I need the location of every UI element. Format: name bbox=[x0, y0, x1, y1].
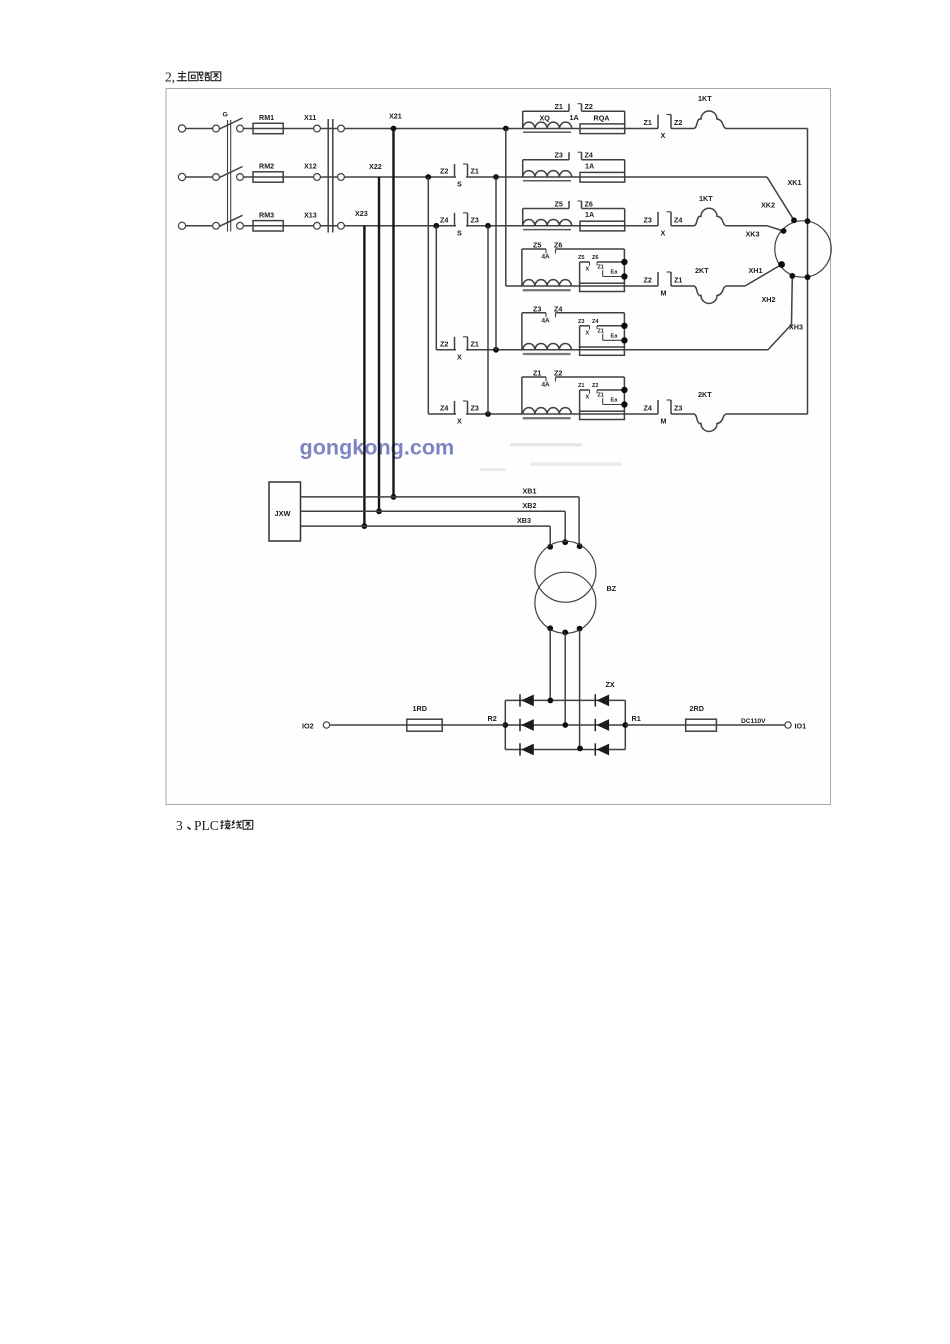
svg-text:G: G bbox=[223, 112, 228, 119]
svg-text:1KT: 1KT bbox=[699, 194, 713, 203]
svg-text:Z3: Z3 bbox=[644, 215, 652, 224]
svg-text:Z1: Z1 bbox=[598, 393, 605, 399]
svg-text:4A: 4A bbox=[542, 382, 551, 389]
svg-text:Z2: Z2 bbox=[674, 118, 682, 127]
svg-text:X12: X12 bbox=[304, 162, 317, 171]
svg-text:X: X bbox=[661, 228, 666, 237]
svg-text:RM3: RM3 bbox=[259, 210, 274, 219]
svg-text:S: S bbox=[457, 228, 462, 237]
svg-text:X21: X21 bbox=[389, 112, 402, 121]
svg-text:ZX: ZX bbox=[606, 680, 615, 689]
svg-text:Z3: Z3 bbox=[471, 215, 479, 224]
svg-text:XK3: XK3 bbox=[746, 230, 760, 239]
svg-text:XK2: XK2 bbox=[761, 201, 775, 210]
svg-text:3: 3 bbox=[176, 818, 183, 833]
svg-text:Z4: Z4 bbox=[674, 215, 682, 224]
svg-text:X: X bbox=[457, 352, 462, 361]
svg-text:IO2: IO2 bbox=[302, 722, 314, 731]
svg-text:Z6: Z6 bbox=[554, 241, 562, 250]
svg-text:X: X bbox=[586, 267, 590, 273]
svg-text:1KT: 1KT bbox=[698, 94, 712, 103]
svg-text:X11: X11 bbox=[304, 113, 316, 122]
svg-text:XK1: XK1 bbox=[788, 178, 802, 187]
svg-text:XB2: XB2 bbox=[523, 501, 537, 510]
svg-text:M: M bbox=[661, 417, 667, 426]
svg-text:XB1: XB1 bbox=[523, 487, 537, 496]
svg-text:Z1: Z1 bbox=[471, 339, 479, 348]
svg-text:XH2: XH2 bbox=[762, 295, 776, 304]
svg-text:XQ: XQ bbox=[540, 113, 551, 122]
svg-text:IO1: IO1 bbox=[795, 722, 807, 731]
svg-text:Z5: Z5 bbox=[533, 241, 541, 250]
svg-text:Z1: Z1 bbox=[674, 276, 682, 285]
svg-text:Z1: Z1 bbox=[598, 265, 605, 271]
svg-text:Z2: Z2 bbox=[644, 276, 652, 285]
svg-text:Z2: Z2 bbox=[592, 383, 599, 389]
svg-text:BZ: BZ bbox=[607, 584, 617, 593]
svg-text:Z3: Z3 bbox=[674, 404, 682, 413]
svg-text:X: X bbox=[586, 330, 590, 336]
svg-text:Z4: Z4 bbox=[440, 215, 448, 224]
svg-text:2,: 2, bbox=[165, 70, 175, 85]
svg-text:S: S bbox=[457, 180, 462, 189]
svg-text:gongkong.com: gongkong.com bbox=[300, 435, 455, 460]
svg-text:Z2: Z2 bbox=[440, 339, 448, 348]
svg-text:Z4: Z4 bbox=[440, 404, 448, 413]
svg-text:RQA: RQA bbox=[594, 113, 610, 122]
svg-text:Z1: Z1 bbox=[578, 383, 585, 389]
svg-text:4A: 4A bbox=[542, 317, 551, 324]
svg-text:XB3: XB3 bbox=[517, 516, 531, 525]
svg-text:Z6: Z6 bbox=[592, 255, 599, 261]
svg-text:Z1: Z1 bbox=[471, 167, 479, 176]
svg-text:JXW: JXW bbox=[275, 509, 291, 518]
svg-text:RM1: RM1 bbox=[259, 113, 274, 122]
svg-text:1A: 1A bbox=[585, 210, 594, 219]
svg-text:Z1: Z1 bbox=[644, 118, 652, 127]
svg-text:Z1: Z1 bbox=[533, 369, 541, 378]
svg-text:Z4: Z4 bbox=[554, 304, 562, 313]
svg-text:Z4: Z4 bbox=[585, 151, 593, 160]
svg-text:Z3: Z3 bbox=[578, 319, 585, 325]
svg-text:Z1: Z1 bbox=[555, 102, 563, 111]
svg-text:Z5: Z5 bbox=[555, 200, 563, 209]
svg-text:R1: R1 bbox=[632, 714, 641, 723]
svg-text:Ea: Ea bbox=[611, 333, 619, 339]
svg-text:XH1: XH1 bbox=[749, 266, 763, 275]
svg-text:DC110V: DC110V bbox=[741, 718, 766, 725]
svg-text:Z5: Z5 bbox=[578, 255, 585, 261]
svg-text:1A: 1A bbox=[585, 161, 594, 170]
svg-text:Z1: Z1 bbox=[598, 328, 605, 334]
svg-text:Z2: Z2 bbox=[554, 369, 562, 378]
svg-text:X: X bbox=[457, 417, 462, 426]
svg-text:Z4: Z4 bbox=[592, 319, 599, 325]
svg-text:PLC: PLC bbox=[194, 818, 219, 833]
svg-text:Ea: Ea bbox=[611, 270, 619, 276]
svg-text:Z2: Z2 bbox=[440, 167, 448, 176]
svg-text:Z3: Z3 bbox=[471, 404, 479, 413]
svg-text:1A: 1A bbox=[570, 113, 579, 122]
svg-text:2RD: 2RD bbox=[690, 704, 704, 713]
svg-text:M: M bbox=[661, 289, 667, 298]
svg-text:Z3: Z3 bbox=[533, 304, 541, 313]
svg-text:2KT: 2KT bbox=[698, 390, 712, 399]
svg-text:R2: R2 bbox=[488, 714, 497, 723]
svg-text:X: X bbox=[586, 395, 590, 401]
svg-text:X22: X22 bbox=[369, 162, 382, 171]
svg-text:Z3: Z3 bbox=[555, 151, 563, 160]
svg-text:Z6: Z6 bbox=[585, 200, 593, 209]
svg-text:4A: 4A bbox=[542, 254, 551, 261]
svg-text:XH3: XH3 bbox=[789, 323, 803, 332]
svg-text:Z4: Z4 bbox=[644, 404, 652, 413]
svg-text:Z2: Z2 bbox=[585, 102, 593, 111]
svg-text:X23: X23 bbox=[355, 209, 368, 218]
svg-text:Ea: Ea bbox=[611, 398, 619, 404]
svg-text:2KT: 2KT bbox=[695, 266, 709, 275]
svg-text:X: X bbox=[661, 131, 666, 140]
svg-text:RM2: RM2 bbox=[259, 162, 274, 171]
svg-text:1RD: 1RD bbox=[413, 704, 427, 713]
svg-text:X13: X13 bbox=[304, 210, 317, 219]
